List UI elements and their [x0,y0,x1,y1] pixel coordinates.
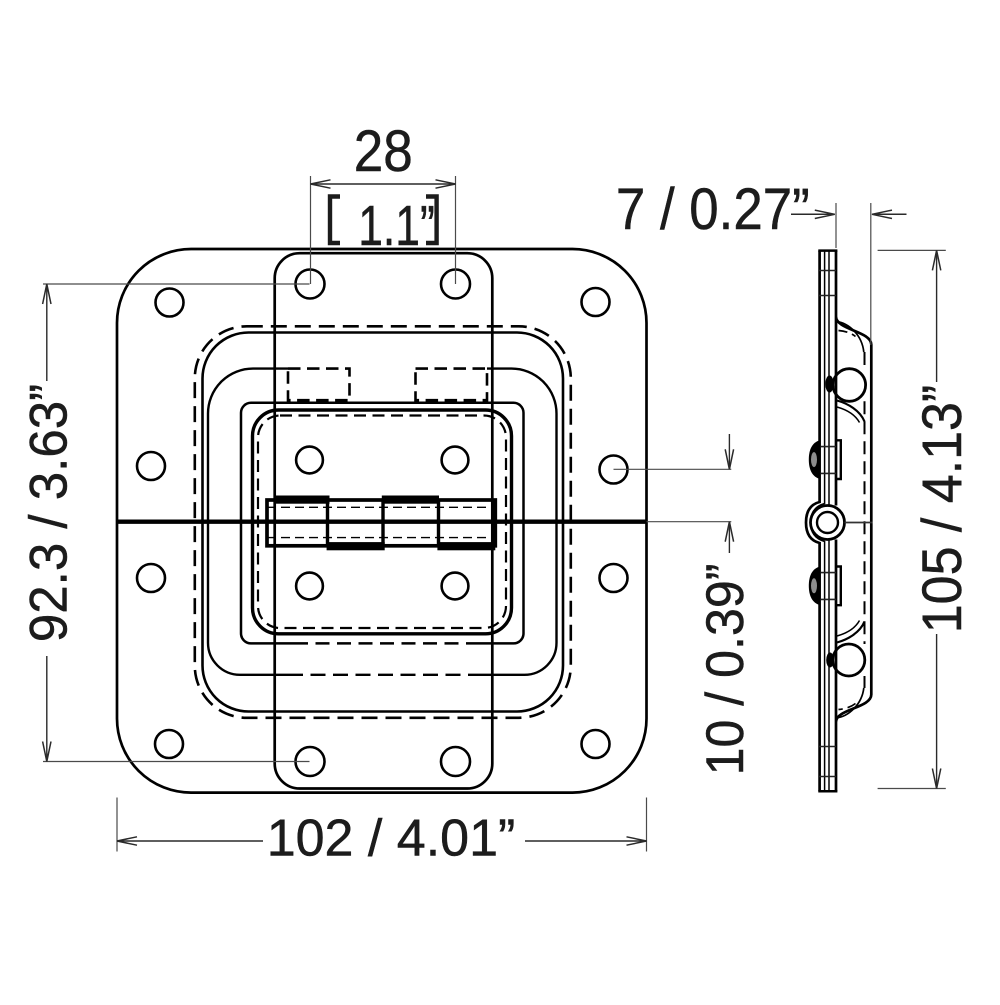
dim 7: arrow right [872,210,907,218]
side view: plate left face [806,251,820,792]
svg-text:92.3 / 3.63”: 92.3 / 3.63” [20,384,79,642]
side view: hinge pin [817,512,838,533]
strap hole top-left [296,270,325,299]
side view: hidden dash fragment bottom [839,704,856,710]
side view: embossed lug upper [809,440,821,479]
strap hole bottom-right [441,747,470,776]
dish inner edge left solid part [208,369,288,675]
dim 10: leader hole [614,468,732,470]
dim 105: dimension line [936,250,938,788]
svg-text:7 / 0.27”: 7 / 0.27” [616,177,810,242]
strap hole top-right [441,270,470,299]
dim 105: arrow bottom [932,769,940,789]
dim 7: extension line right [870,203,872,345]
dish inner edge right solid part [476,369,557,675]
side view: embossed lug lower [809,567,821,606]
hinge knuckle bar top 2 [382,496,439,504]
plate mounting hole bottom-left [155,730,183,758]
hinge knuckle bar top 1 [275,496,330,504]
side view: flap hole edge ticks lower [818,573,836,600]
lid stay flap outline [241,403,524,644]
hinge pin hidden line lower [267,537,495,539]
plate mounting hole bottom-right [582,730,610,758]
side view: boss curve below upper hole [837,401,865,422]
flap hole bottom-right [442,573,469,600]
dim 10: stub bottom with arrow [728,522,730,553]
hinge cutout hidden rect right [416,369,488,401]
dim 92.3: arrow bottom [43,742,51,762]
dish plateau hidden inner edge [258,416,506,629]
side view: top cap [818,249,837,252]
dim 28: arrow left [311,180,331,188]
svg-text:1.1”: 1.1” [358,194,435,258]
dim 102: arrow left [117,837,137,845]
lid stay flap hidden bottom edge [294,642,470,645]
side view: dish contact line [828,251,830,792]
hinge body outline [267,500,495,546]
side view: hinge knuckle outer [811,506,845,540]
dim 92.3: dimension line [46,284,48,762]
side view: rivet lens lower [826,653,834,668]
hinge pivot axis heavy line [117,520,647,524]
side view: embossed lug lower hidden edge [836,567,841,606]
dim text [1.1"] bracket right [426,197,437,244]
side view: rivet lens upper [825,376,833,393]
hinge knuckle joint line 3 [437,500,440,546]
side view: plate right face [811,251,825,792]
side view: strap hole edge ticks bottom [818,747,836,777]
dim 105: arrow top [932,250,940,270]
dim text [1.1"] bracket left [330,197,340,244]
front view: outer plate [117,249,647,793]
hinge pin hidden line upper [267,506,495,508]
dim 7: arrow left [791,210,835,218]
side view: dish wall line [836,251,871,792]
dim 28: dimension line [311,183,456,185]
svg-text:105 / 4.13”: 105 / 4.13” [911,385,973,633]
dim 92.3: leader top [43,283,310,285]
plate mounting hole left-lower [137,564,165,592]
svg-text:28: 28 [354,119,413,184]
dim 28: extension line right [455,176,457,284]
side view: embossed lug upper hidden edge [836,440,841,479]
dish outer edge [203,333,564,712]
strap hole bottom-left [296,747,325,776]
dim 105: extension line bottom [878,788,946,790]
dim 92.3: arrow top [43,284,51,304]
side view: hidden dash fragment top [839,331,856,337]
side view: bottom cap [818,790,837,793]
dish inner edge hidden bottom [288,674,476,676]
flap hole top-left [296,447,323,474]
plate mounting hole top-right [582,288,610,316]
side view: boss curve above lower hole [837,622,865,643]
hinge knuckle bar bottom 2 [437,542,495,550]
dim 28: arrow right [436,180,456,188]
dim 102: extension line left [116,798,118,852]
hinge knuckle bar bottom 1 [327,542,385,550]
flap hole top-right [442,447,469,474]
side view: hidden dish inner face [864,352,866,688]
dim 102: arrow right [627,837,647,845]
side view: hinge axis line [845,522,873,524]
side view: upper dish hole [833,369,866,402]
dim 10: leader hinge axis [647,521,732,523]
plate mounting hole left-upper [137,452,165,480]
dim 102: extension line right [646,798,648,852]
side view: inner sheet curve bottom [836,688,864,718]
svg-text:10 / 0.39”: 10 / 0.39” [695,564,755,776]
recess cutout dashed outline [195,326,571,718]
vertical strap plate [275,253,493,788]
dim 10: stub top with arrow [728,434,730,469]
flap hole bottom-left [296,573,323,600]
dim 105: extension line top [878,249,946,251]
dish plateau step [253,410,512,634]
dim 102: dimension line [117,840,647,842]
side view: lower dish hole [833,644,865,676]
side view: strap hole edge ticks top [818,271,836,296]
hinge cutout hidden rect left [288,369,350,401]
side view: flap hole edge ticks upper [818,447,836,474]
plate mounting hole right-upper [600,456,628,484]
dim 7: extension line left [835,203,837,248]
plate mounting hole top-left [156,289,184,317]
side view: inner sheet curve top [836,322,864,353]
hinge knuckle joint line 2 [381,500,384,546]
hinge knuckle joint line 1 [326,500,329,546]
svg-text:102 / 4.01”: 102 / 4.01” [267,810,516,868]
dim 28: extension line left [310,176,312,284]
plate mounting hole right-lower [600,564,628,592]
dim 92.3: leader bottom [43,761,310,763]
